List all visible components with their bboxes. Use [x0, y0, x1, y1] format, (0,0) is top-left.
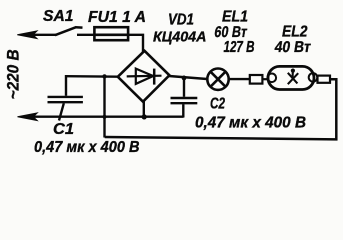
EL2 gas-fill symbol — [288, 69, 298, 85]
wire: fuse to bridge top corner — [128, 35, 143, 52]
wire: mid-left from bridge left vertex — [66, 75, 119, 78]
bridge rectifier VD1 diamond — [118, 51, 170, 102]
node: vertical tie crossing — [102, 115, 106, 119]
EL2 left electrode — [268, 74, 277, 83]
svg-text:С1: С1 — [53, 121, 74, 138]
diode inside VD1 — [127, 69, 162, 85]
EL2 right electrode — [309, 73, 318, 82]
arrow head top (mains terminal) — [17, 31, 37, 39]
arrow head bottom (mains terminal) — [18, 113, 38, 121]
svg-text:FU1 1 A: FU1 1 A — [88, 9, 146, 26]
svg-text:EL2: EL2 — [282, 24, 308, 41]
node: C2 upper junction — [182, 76, 187, 81]
capacitor C1 — [48, 75, 83, 121]
svg-text:С2: С2 — [210, 96, 225, 113]
svg-text:~220 В: ~220 В — [4, 49, 22, 99]
lamp EL2 (gas-discharge) left cap — [250, 75, 263, 84]
wire: bridge right vertex to lamp EL1 — [169, 76, 207, 79]
wire: bottom mains lead with arrow — [28, 115, 184, 117]
lamp EL2 right cap — [318, 76, 331, 83]
svg-text:EL1: EL1 — [222, 8, 248, 25]
switch SA1 blade — [55, 27, 83, 35]
lamp EL2 bulb (stadium) — [268, 66, 314, 89]
svg-text:127 В: 127 В — [224, 39, 255, 56]
svg-text:SA1: SA1 — [43, 8, 74, 25]
wire: EL1 to EL2 — [229, 78, 250, 80]
wire: switch to fuse — [77, 34, 95, 36]
node: mid wire / vertical junction — [102, 74, 106, 78]
svg-text:0,47 мк х 400 В: 0,47 мк х 400 В — [34, 139, 140, 156]
svg-text:0,47 мк х 400 В: 0,47 мк х 400 В — [195, 114, 306, 131]
wire: top mains lead with arrow — [28, 34, 56, 36]
node: bridge bottom junction — [142, 114, 147, 119]
wire: EL2 to right edge, down and back (return wire) — [105, 79, 337, 139]
fuse FU1 — [94, 27, 128, 40]
lamp EL1 (incandescent) — [207, 69, 228, 90]
capacitor C2 — [171, 78, 198, 118]
wire: bridge bottom vertex lead — [143, 101, 145, 118]
svg-text:40 Вт: 40 Вт — [273, 39, 312, 56]
wire stub — [262, 78, 269, 80]
svg-text:КЦ404А: КЦ404А — [153, 28, 207, 45]
wire: vertical tie line x=104.5 — [103, 76, 105, 137]
svg-text:VD1: VD1 — [168, 12, 194, 29]
